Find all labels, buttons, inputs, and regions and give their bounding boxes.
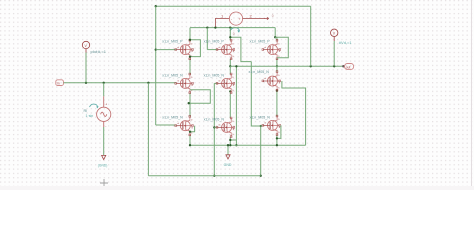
svg-text:x1;n_M05_N: x1;n_M05_N [250,115,271,119]
svg-text:x1;n_M05_N: x1;n_M05_N [204,73,225,77]
ammeter V0 [229,12,242,25]
svg-text:x1;n_M05_N: x1;n_M05_N [162,116,183,120]
junction top-left corner [155,5,157,7]
wire input riser down [147,83,149,176]
junction m9 loop bot [276,137,278,139]
junction gndrail c1 [189,144,191,146]
output pin out [342,64,353,70]
wire M7 loop [190,126,195,132]
svg-text:x1;n_M05_N: x1;n_M05_N [249,70,270,74]
svg-text:0: 0 [233,32,235,36]
wire M3 loop [275,37,288,58]
wire r1c2 gate [207,49,217,51]
annotation V1 curl [90,104,98,108]
wire r3c3 gate link [251,62,263,126]
junction gate c2 riser [206,26,208,28]
ground GND arrow [226,155,230,159]
probe V-out [331,29,338,41]
svg-text:0: 0 [272,14,274,18]
junction out riser [310,65,312,67]
wire r3c1 gate [156,124,176,126]
status bar [0,186,474,190]
junction long loop top [235,65,237,67]
svg-text:x1;n_M05_N: x1;n_M05_N [204,117,225,121]
junction gndrail c2 [229,144,231,146]
wire rail27 [190,27,275,29]
wire c2 lower [229,93,231,118]
junction r1c1 gate tap [155,48,157,50]
junction ammeter tap [214,26,216,28]
wire c3 to gndrail [276,135,278,146]
junction c2 source [229,90,231,92]
junction r3c3 gate riser top [260,125,262,127]
wire r3c3 gate riser [260,126,262,176]
junction input riser [147,82,149,84]
svg-text:x1;n_M05_P: x1;n_M05_P [162,40,183,44]
wire c1 to gndrail [189,135,191,145]
junction out c2 [229,65,231,67]
transistor M5 [204,73,235,93]
svg-text:-: - [105,124,106,128]
svg-text:(GND): (GND) [98,164,108,168]
ground gnd1 arrow [102,155,106,159]
wire V1 to gnd [103,127,105,155]
svg-text:Rl: Rl [84,109,88,113]
junction r3c2 gate [213,126,215,128]
wire left rail vertical [155,6,157,125]
wire c2 drain drop [229,28,231,41]
transistor M3 [250,39,281,59]
wire M1 loop [190,40,200,57]
transistor M1 [162,39,193,59]
junction riser bottom [213,175,215,177]
pin arrow 0 [265,14,274,23]
svg-text:out: out [346,65,351,69]
wire c3 lower [276,90,278,116]
wire c3 drain drop [275,37,277,40]
svg-text:.: . [272,19,273,23]
wire input net [64,82,176,84]
transistor M7 [162,115,193,135]
wire M9 loop [277,125,281,138]
svg-text:plot;#,=1: plot;#,=1 [91,49,107,54]
wire r3c2 gate stub [214,126,217,128]
svg-text:x1;n_M05_P: x1;n_M05_P [250,40,271,44]
junction r3c3 riser bottom [260,175,262,177]
wire M8 loop [230,139,236,141]
window edge right [471,0,472,190]
junction vsource top [103,82,105,84]
wire c1 drain drop [189,28,191,41]
wire gnd rail [190,144,306,146]
wire c2 low [229,66,231,74]
junction m1 loop top [189,39,191,41]
wire c3 low [276,66,278,71]
transistor M8 [204,117,235,137]
wire c1 mid [189,59,191,74]
junction m8 source [229,139,231,141]
wire r1c2 loop link [241,55,251,62]
junction m2 loop top [229,36,231,38]
wire M4 loop [189,90,211,103]
wire gnd stub [227,145,229,154]
wire V-in probe [85,53,87,83]
junction m1 loop bot [189,55,191,57]
svg-text:x1;n_M05_P: x1;n_M05_P [204,40,225,44]
wire c1 low [189,93,191,117]
svg-text:1·sin: 1·sin [86,114,94,118]
junction m7 loop bot [189,131,191,133]
wire rail27 corner down [274,28,276,38]
junction out c3 [276,65,278,67]
junction m4 loop bot [188,102,190,104]
wire top rail [156,5,311,7]
wire V1 top lead [103,96,105,107]
wire c3 mid [276,59,278,66]
origin cross [100,179,108,187]
probe V-in [82,41,89,52]
annotation current curl [230,28,240,37]
svg-text:x1;n_M05_N: x1;n_M05_N [162,73,183,77]
svg-text:+: + [105,102,107,106]
wire out riser [310,6,312,66]
wire long loop down [235,66,237,145]
svg-text:GND: GND [224,163,232,167]
wire M6 loop [282,81,306,145]
junction gndrail c3 [276,144,278,146]
svg-text:#Vd,=1: #Vd,=1 [339,40,353,45]
wire ammeter right lead [243,18,265,20]
wire bottom rail [148,175,260,177]
transistor M9 [250,115,281,135]
junction gnd stub [227,144,229,146]
transistor M2 [204,39,235,59]
junction long loop bottom [235,144,237,146]
junction c3 source [276,90,278,92]
wire c2 to gndrail [229,137,231,146]
wire out net [230,65,342,67]
junction vprobe-in [85,82,87,84]
wire c2 mid [229,59,231,66]
wire ammeter left lead [215,19,229,28]
wire gate riser c2 [206,28,208,50]
wire r1c1 gate [156,49,176,51]
junction r1c3 drain [274,36,276,38]
wire gate riser mid [213,83,215,175]
wire V1 top lead upper [103,83,105,97]
junction out probe [333,65,335,67]
junction drain c2 tap [229,26,231,28]
wire out probe [333,41,335,66]
input pin in [56,80,64,86]
source V1 [97,102,111,128]
transistor M6 [249,70,281,91]
wire r2c2 gate [214,82,217,84]
wire M2 loop [230,37,241,55]
transistor M4 [162,73,193,93]
svg-text:in: in [57,81,60,85]
